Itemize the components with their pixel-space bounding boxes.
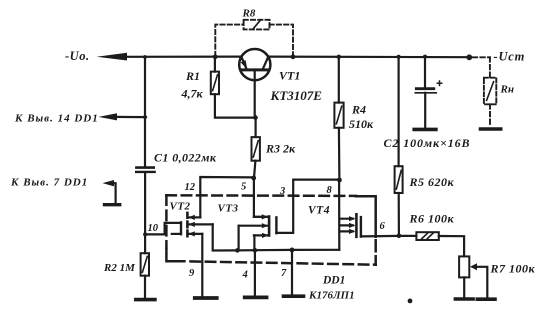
slash inside R8	[254, 21, 260, 29]
transistor VT3 source stub	[254, 233, 269, 238]
wire VT2 source / pin9 column to ground	[201, 234, 203, 296]
svg-text:R4: R4	[351, 103, 366, 117]
svg-text:К176ЛП1: К176ЛП1	[308, 290, 355, 302]
svg-text:5: 5	[241, 182, 246, 193]
resistor R5 body	[395, 166, 403, 193]
transistor VT2 drain stub	[188, 215, 200, 220]
wire R4 top lead	[338, 57, 340, 103]
svg-text:7: 7	[281, 268, 287, 279]
svg-text:-Uст: -Uст	[494, 50, 526, 64]
wire K vyv.14 to column	[113, 116, 146, 118]
svg-text:КТ3107Е: КТ3107Е	[270, 88, 323, 103]
wire R1 bottom to base node	[215, 94, 256, 117]
transistor VT4 gate bar	[360, 217, 362, 237]
ground under R2	[136, 298, 155, 302]
svg-text:С1 0,022мк: С1 0,022мк	[154, 151, 217, 165]
wire top rail left (to VT1 emitter)	[120, 55, 241, 57]
transistor VT4 channel	[355, 214, 358, 237]
svg-text:К Выв. 7 DD1: К Выв. 7 DD1	[10, 177, 88, 189]
transistor VT3 substrate stub	[239, 223, 269, 228]
svg-text:VT3: VT3	[218, 203, 239, 215]
wire R6 left lead	[399, 235, 417, 237]
transistor VT3 channel	[268, 217, 271, 236]
resistor Rn body (dashed)	[484, 78, 496, 105]
ground under C2	[414, 128, 436, 132]
wire R7 bottom to ground	[463, 277, 465, 297]
svg-text:R6 100к: R6 100к	[409, 212, 455, 226]
wire pin7 column to ground	[291, 250, 293, 295]
wire VT4 gate to pin6 / R6	[361, 235, 399, 238]
svg-text:Rн: Rн	[500, 84, 514, 96]
svg-text:VT1: VT1	[279, 69, 300, 83]
chip DD1 boundary left (dashed)	[165, 195, 168, 247]
wire VT3 substrate down to common	[238, 226, 240, 251]
wire VT1 base lead down	[254, 70, 256, 118]
svg-text:6: 6	[380, 221, 386, 232]
transistor VT4 source stub	[340, 229, 356, 234]
wire common rail segment	[237, 249, 255, 251]
svg-text:R7 100к: R7 100к	[490, 262, 536, 276]
svg-text:4,7к: 4,7к	[181, 87, 204, 101]
node junction 14/column	[143, 115, 147, 119]
wire C1 to R2	[144, 173, 146, 253]
svg-text:10: 10	[148, 223, 159, 234]
transistor VT1 collector lead	[263, 57, 269, 70]
svg-text:-Uо.: -Uо.	[65, 49, 90, 63]
node junction R2-top / pin10	[143, 232, 147, 236]
capacitor C2 plates	[415, 89, 436, 93]
node junction rail/R8 right leg	[291, 54, 296, 59]
wire pin10 gate route from R2 top	[145, 223, 181, 235]
transistor VT1 emitter lead with arrow	[241, 57, 248, 70]
wire node to pin12 riser	[200, 177, 253, 217]
wire pin8 column down	[338, 180, 340, 250]
svg-text:VT4: VT4	[308, 205, 330, 217]
chip DD1 boundary right lower	[374, 240, 377, 265]
wire node to pin3 column	[276, 180, 339, 233]
svg-text:9: 9	[189, 268, 195, 279]
terminal -Uo arrow	[97, 53, 128, 61]
resistor R1 body	[211, 72, 219, 95]
transistor VT2 gate bar	[180, 222, 182, 234]
svg-text:12: 12	[185, 182, 196, 193]
resistor R8 (dashed, optional) with leads	[215, 20, 293, 56]
svg-text:R1: R1	[185, 69, 200, 83]
svg-text:8: 8	[327, 185, 333, 196]
terminal K vyv.7 arrow	[103, 180, 115, 186]
resistor R4 body	[334, 103, 343, 128]
svg-text:510к: 510к	[349, 117, 374, 131]
transistor VT2 channel	[186, 213, 189, 236]
wire R3 bottom to node	[254, 161, 255, 178]
stray ink dot	[408, 299, 413, 304]
node base junction dot	[253, 115, 258, 120]
svg-text:R2 1М: R2 1М	[103, 262, 136, 274]
ground pin7	[284, 294, 304, 298]
wire C2 top lead	[424, 57, 426, 88]
transistor VT3 gate bar	[275, 217, 277, 233]
wire R5 bottom lead	[398, 193, 400, 236]
wire base node to R3	[255, 118, 257, 138]
wire R4 bottom to node	[338, 128, 341, 180]
transistor VT2 gate foot stub	[172, 233, 181, 235]
resistor R6 body	[416, 232, 438, 240]
svg-text:С2 100мк×16В: С2 100мк×16В	[384, 136, 471, 150]
ground under R7 wiper	[477, 297, 495, 301]
node rail end dot	[466, 54, 472, 60]
transistor VT2 substrate stub	[188, 222, 213, 227]
svg-text:R5 620к: R5 620к	[409, 175, 455, 189]
potentiometer R7 body	[459, 256, 469, 277]
node junction rail/R4	[337, 55, 341, 59]
svg-text:VT2: VT2	[170, 201, 191, 213]
resistor R3 body	[252, 137, 260, 161]
chip DD1 boundary top-right corner	[356, 196, 376, 237]
wire pin5 column	[254, 178, 268, 217]
svg-text:3: 3	[279, 186, 285, 197]
capacitor C1	[136, 168, 154, 172]
ground under Rn	[480, 127, 500, 130]
wire R1 top lead	[214, 57, 216, 72]
node junction rail/R1-R8	[213, 54, 218, 59]
ground pin4	[245, 295, 267, 299]
chip DD1 boundary bottom (dashed)	[191, 261, 376, 264]
wire common rail segment to VT4	[292, 249, 339, 251]
node junction common/pin7	[290, 248, 295, 253]
wire top rail right (VT1 collector to output)	[268, 55, 468, 58]
node junction R5/R6 wire	[397, 234, 402, 239]
wire VT2 substrate route to common rail	[213, 224, 238, 250]
svg-text:R8: R8	[242, 8, 256, 20]
wire left column rail to C1	[144, 57, 146, 166]
transistor VT1 base bar	[242, 68, 268, 71]
node junction R4/pin8/pin3	[337, 178, 342, 183]
transistor VT2 source stub	[188, 231, 202, 236]
wire VT3 source down / pin4 column to ground	[253, 235, 256, 295]
node junction common/VT3 source pin4	[253, 248, 258, 253]
resistor R2 body	[141, 253, 149, 276]
svg-text:DD1: DD1	[322, 275, 345, 287]
node junction rail/R5	[397, 55, 401, 59]
wire Rn to ground (dashed)	[489, 104, 491, 127]
wire R6 right lead to R7	[439, 236, 464, 256]
wire K vyv.7 to ground	[112, 183, 116, 203]
transistor VT4 substrate stub	[340, 223, 356, 228]
wire common rail segment	[255, 249, 292, 252]
wire R5 top lead	[398, 57, 400, 166]
ground pin9	[195, 296, 217, 300]
node junction R3/pin5/pin12	[251, 176, 256, 181]
chip DD1 boundary top (dashed)	[166, 194, 356, 197]
node rail/column junction	[143, 55, 147, 59]
potentiometer R7 wiper arrow	[470, 263, 487, 297]
transistor VT4 drain stub	[340, 216, 356, 221]
terminal K vyv.14 arrow	[99, 113, 118, 120]
chip DD1 boundary bottom-left corner	[166, 249, 184, 261]
transistor VT3 drain stub (from pin5)	[254, 214, 268, 219]
svg-text:R3 2к: R3 2к	[265, 142, 296, 156]
svg-text:4: 4	[242, 270, 248, 281]
node junction rail/C2	[423, 55, 427, 59]
wire dashed to -Ust and Rn	[473, 57, 490, 77]
ground under R7	[455, 297, 473, 301]
polarity plus mark C2	[437, 81, 441, 85]
transistor VT1 circle	[239, 49, 270, 80]
node junction common/VT3 substrate	[235, 248, 240, 253]
ground under K vyv.7	[105, 203, 120, 206]
wire R2 to ground	[144, 276, 146, 298]
wire C2 bottom lead	[424, 93, 426, 128]
svg-text:К Выв. 14 DD1: К Выв. 14 DD1	[14, 113, 99, 125]
